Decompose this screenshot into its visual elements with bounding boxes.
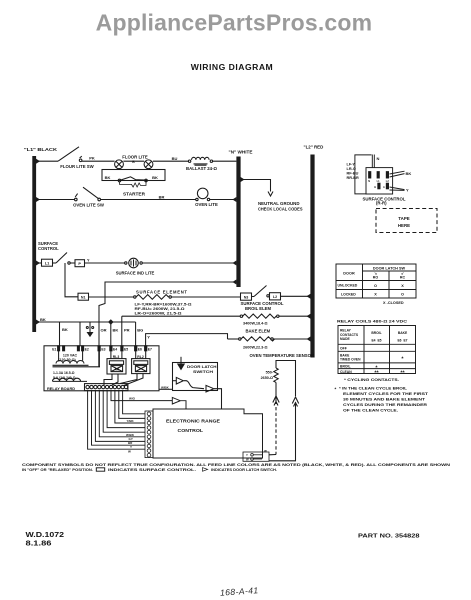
handwritten page number [220, 585, 259, 598]
svg-text:BG: BG [137, 327, 143, 332]
svg-text:RL2: RL2 [137, 355, 144, 359]
surface control detail block R-R [355, 155, 405, 195]
label N1 in box [81, 296, 86, 300]
sensor left lead [275, 382, 277, 404]
svg-text:CHECK LOCAL CODES: CHECK LOCAL CODES [258, 206, 303, 211]
pin H [378, 183, 380, 189]
svg-text:W/BK: W/BK [161, 385, 170, 389]
svg-text:RF-BU= 2600W, 21.5-Ω: RF-BU= 2600W, 21.5-Ω [135, 307, 185, 311]
label relay table header [340, 329, 359, 341]
svg-text:RL3: RL3 [113, 355, 120, 359]
wire down from switch node [65, 263, 78, 297]
svg-text:RF-BU: RF-BU [347, 172, 359, 176]
label RL2 [137, 355, 144, 359]
svg-text:B: B [132, 160, 135, 164]
label E1 [52, 348, 56, 352]
wire N1 to surface element [89, 296, 134, 298]
door latch triangle contact 3 [172, 397, 186, 409]
svg-text:W: W [264, 449, 267, 453]
svg-text:8.1.86: 8.1.86 [26, 540, 52, 547]
svg-text:(120-50 Ω): (120-50 Ω) [58, 358, 76, 362]
label Y/BK [127, 419, 135, 423]
ERC box [153, 409, 263, 458]
label NEUTRAL GROUND CHECK LOCAL CODES [258, 201, 303, 211]
svg-text:OVEN LITE SW: OVEN LITE SW [73, 203, 105, 208]
pin L1 [377, 172, 379, 178]
label BR wire [159, 194, 165, 199]
label P in box [78, 262, 81, 266]
inductor BALLAST 24 ohm [188, 157, 212, 165]
resistor BAKE ELEM [228, 337, 311, 341]
svg-text:PR: PR [124, 327, 130, 332]
svg-text:A: A [383, 186, 385, 189]
svg-text:WIRING DIAGRAM: WIRING DIAGRAM [191, 62, 273, 72]
wire L2 box to bus [281, 295, 311, 297]
svg-text:BALLAST 24-Ω: BALLAST 24-Ω [186, 166, 217, 171]
label 2600W bake [243, 346, 268, 350]
svg-text:(R-R): (R-R) [376, 201, 387, 206]
resistor sensor [274, 368, 278, 382]
label W connector [246, 449, 267, 461]
label BG drop [137, 327, 143, 332]
svg-text:O: O [374, 284, 377, 288]
label GY pin [129, 437, 133, 441]
label OVEN LITE [195, 202, 218, 207]
svg-text:OF THE CLEAN CYCLE.: OF THE CLEAN CYCLE. [343, 409, 398, 413]
label SURFACE CONTROL row3 [38, 241, 59, 251]
label E6 [138, 348, 142, 352]
wire harness 9 [119, 391, 145, 419]
svg-text:OFF: OFF [340, 346, 347, 350]
svg-text:OVEN TEMPERATURE SENSOR: OVEN TEMPERATURE SENSOR [250, 353, 315, 358]
label SURFACE CONTROL (R-R) [363, 196, 406, 205]
sensor top wire [276, 361, 296, 397]
wire row1 to ballast [153, 160, 188, 162]
svg-text:BU: BU [172, 156, 178, 161]
junction N tap [241, 177, 245, 182]
resistor SURFACE ELEMENT [134, 295, 172, 300]
wire harness 6 [107, 391, 145, 428]
svg-text:L1: L1 [377, 180, 381, 183]
label L2 in box [273, 295, 277, 299]
pin N [369, 172, 371, 178]
door latch sw table [336, 264, 416, 298]
wire E5 drop [121, 316, 123, 346]
label SURFACE CONTROL BROIL ELEM [241, 301, 284, 311]
label BALLAST 24 ohm [186, 166, 217, 171]
svg-text:TIMED OVEN: TIMED OVEN [340, 358, 361, 362]
svg-text:L1: L1 [45, 262, 49, 266]
svg-text:* IN THE CLEAN CYCLE BROIL: * IN THE CLEAN CYCLE BROIL [339, 387, 408, 391]
label X-CLOSED [383, 301, 404, 305]
lamp FLOOR LITE end 1 [115, 160, 124, 169]
wire row2 to oven lite [101, 199, 196, 201]
svg-text:E3: E3 [101, 348, 105, 352]
junction N row3 [232, 261, 236, 266]
label TAPE HERE [398, 216, 410, 228]
label surface element colors [347, 162, 359, 180]
label W/O [129, 397, 136, 401]
label BAKE ELEM [246, 329, 271, 334]
arrow right plug [292, 397, 298, 407]
svg-text:BK: BK [105, 175, 111, 180]
wire harness 4 [99, 391, 145, 437]
label SURFACE ELEMENT [136, 289, 188, 294]
wire harness relay board to ERC [88, 391, 186, 450]
label 8.1.86 [26, 540, 52, 547]
label BR pin [128, 441, 133, 445]
svg-text:E4: E4 [113, 348, 117, 352]
svg-text:BROIL: BROIL [371, 331, 381, 335]
svg-text:X: X [401, 284, 404, 288]
svg-text:FLOOR LITE: FLOOR LITE [122, 155, 148, 160]
svg-text:LOCKED: LOCKED [341, 292, 356, 296]
wire switch to P box [70, 262, 75, 264]
wire oven lite to N bus [210, 199, 237, 201]
label RL3 [113, 355, 120, 359]
leader lines Y [390, 187, 405, 190]
lamp SURFACE IND LITE [125, 258, 143, 268]
svg-text:3400W,18.4-Ω: 3400W,18.4-Ω [243, 322, 268, 326]
switch STARTER contacts [118, 177, 147, 187]
label E3 [101, 348, 105, 352]
svg-text:BK: BK [40, 317, 46, 322]
label PART NO. 354828 [358, 534, 420, 540]
svg-text:1-1.3A 16.5-Ω: 1-1.3A 16.5-Ω [53, 371, 75, 375]
svg-text:*: * [335, 387, 337, 392]
dashed sensor lead [269, 407, 276, 455]
svg-text:L2: L2 [273, 295, 277, 299]
label Y after P [87, 258, 90, 262]
svg-text:Y: Y [406, 187, 409, 192]
label BROIL row [340, 365, 378, 372]
svg-text:INDICATES DOOR LATCH SWITCH: INDICATES DOOR LATCH SWITCH. [211, 468, 277, 472]
terminal P box [75, 260, 85, 267]
svg-text:N3: N3 [244, 296, 249, 300]
svg-text:2650-Ω: 2650-Ω [261, 376, 273, 380]
door latch triangle contact 2 [206, 385, 214, 392]
pin A [386, 183, 388, 189]
svg-text:SURFACE ELEMENT: SURFACE ELEMENT [136, 289, 188, 294]
label SURFACE IND LITE [116, 270, 155, 275]
label 5V 24 240 ohm [53, 376, 76, 380]
svg-text:P: P [78, 262, 81, 266]
svg-text:BROIL: BROIL [340, 365, 351, 369]
svg-text:N: N [377, 156, 380, 161]
svg-text:Y: Y [246, 453, 248, 457]
label cycling contacts [344, 377, 399, 382]
svg-text:W: W [128, 450, 131, 454]
wire E6 drop [135, 322, 137, 346]
label OR drop [101, 327, 107, 332]
svg-text:CONTROL: CONTROL [38, 246, 59, 251]
svg-text:SWITCH: SWITCH [193, 369, 213, 374]
svg-text:120 VAC: 120 VAC [63, 353, 78, 357]
wire harness 1 [88, 391, 145, 450]
svg-text:168-A-41: 168-A-41 [220, 585, 259, 598]
svg-text:L2: L2 [386, 180, 390, 183]
connector box ERC bottom [243, 452, 269, 461]
wire BK feed bus [36, 321, 136, 323]
svg-text:BK: BK [406, 171, 412, 176]
label W-BK wire [161, 385, 170, 389]
svg-text:550-: 550- [266, 371, 274, 375]
svg-text:E6: E6 [138, 348, 142, 352]
bus L2 (red feed line) [310, 155, 314, 358]
svg-text:RR-BR: RR-BR [347, 176, 359, 180]
connector body surface control [366, 168, 393, 194]
label N3 in box [244, 296, 249, 300]
junction L2 broil [307, 314, 311, 319]
svg-text:N: N [368, 180, 370, 183]
svg-text:Y: Y [130, 445, 132, 449]
label secondary 16.5 ohm [53, 371, 75, 375]
label Y drop E7 [147, 334, 150, 339]
label BK at bus [40, 317, 46, 322]
label OVEN LITE SW [73, 203, 105, 208]
label E5 [124, 348, 128, 352]
svg-text:↘: ↘ [374, 271, 377, 275]
svg-text:CONTROL: CONTROL [178, 428, 204, 433]
label PK wire [89, 156, 95, 161]
switch surface control broil [252, 286, 270, 297]
wire N double lead [372, 155, 374, 169]
wire P to ind lite [85, 262, 125, 264]
svg-text:HERE: HERE [398, 223, 410, 228]
wire row3 from L1 bus [36, 262, 42, 264]
lamp FLOOR LITE end 2 [144, 160, 153, 169]
wire E2 drop [79, 322, 81, 346]
svg-text:INDICATES SURFACE CONTROL.: INDICATES SURFACE CONTROL. [108, 468, 196, 472]
svg-text:OR: OR [101, 327, 107, 332]
label OFF row [340, 346, 347, 350]
terminal N1 box [78, 293, 89, 300]
svg-text:5 V (24),240-Ω: 5 V (24),240-Ω [53, 376, 76, 380]
svg-text:TAPE: TAPE [398, 216, 409, 221]
label RO RC [373, 271, 406, 279]
wire E3 drop [98, 322, 100, 346]
junction L2 bake [307, 337, 311, 342]
label pin row letters [368, 180, 389, 189]
svg-text:OVEN LITE: OVEN LITE [195, 202, 218, 207]
label UNLOCKED row [338, 284, 405, 288]
svg-text:E5: E5 [124, 348, 128, 352]
svg-text:LF-Y,RR-BR=1600W,37.5-Ω: LF-Y,RR-BR=1600W,37.5-Ω [135, 303, 192, 307]
svg-text:"L1" BLACK: "L1" BLACK [24, 147, 57, 152]
terminal E7 [145, 346, 147, 351]
label BU wire [172, 156, 178, 161]
starter enclosure box [102, 169, 165, 181]
label W/BK pin [126, 433, 135, 437]
leader lines BK [390, 171, 405, 177]
ground chassis symbol [86, 322, 93, 336]
svg-text:W: W [246, 457, 249, 461]
svg-text:"N" WHITE: "N" WHITE [229, 150, 253, 155]
svg-text:E7: E7 [148, 348, 152, 352]
pin L2 [386, 172, 388, 178]
wire N return mid [99, 282, 236, 322]
wire E4 drop [110, 322, 112, 346]
wire row2 L1 to oven lite switch [36, 199, 74, 201]
node N label [229, 150, 253, 155]
svg-text:DOOR LATCH SW: DOOR LATCH SW [373, 266, 406, 270]
label BK right starter [152, 175, 158, 180]
svg-text:LF-Y: LF-Y [347, 162, 356, 166]
label E2 [85, 348, 89, 352]
label 120 VAC [63, 353, 78, 357]
relay leads [104, 351, 146, 386]
label BK drop E4 [113, 327, 119, 332]
label W.D.1072 [26, 532, 65, 539]
door latch switch assembly [159, 357, 222, 409]
svg-text:BK: BK [62, 327, 68, 332]
junction L1 row3 [36, 261, 40, 266]
wire harness 5 [103, 391, 145, 433]
label W pin [128, 450, 131, 454]
label STARTER [123, 191, 146, 196]
svg-text:AppliancePartsPros.com: AppliancePartsPros.com [96, 10, 373, 36]
terminal E4 [110, 346, 112, 351]
svg-text:RELAY BOARD: RELAY BOARD [47, 386, 75, 391]
oven temperature sensor [243, 361, 299, 462]
label ELECTRONIC RANGE CONTROL [166, 418, 220, 433]
label DOOR [343, 271, 355, 275]
junction BK bus mid [108, 319, 114, 325]
svg-text:LR-O=2600W, 21.5-Ω: LR-O=2600W, 21.5-Ω [135, 312, 182, 316]
svg-text:Y/BK: Y/BK [127, 419, 135, 423]
door latch switch box [173, 363, 218, 391]
terminal E5 [121, 346, 123, 351]
wire harness 2 [92, 391, 146, 446]
label DOOR LATCH SW header [373, 266, 406, 270]
junction N row2 [232, 197, 236, 202]
node L2 label [304, 145, 324, 150]
junction N return [232, 280, 236, 285]
label LOCKED row [341, 292, 404, 296]
svg-text:BAKE: BAKE [398, 331, 408, 335]
arrow left plug [273, 396, 279, 406]
svg-text:PK: PK [89, 156, 95, 161]
outer box surface control detail [355, 155, 372, 194]
terminal N3 box [241, 293, 252, 300]
svg-text:* CYCLING CONTACTS.: * CYCLING CONTACTS. [344, 377, 399, 382]
svg-text:2600W,22.3-Ω: 2600W,22.3-Ω [243, 346, 268, 350]
tape here dashed box [376, 209, 437, 233]
relay RL3 body [107, 359, 126, 374]
label E4 [113, 348, 117, 352]
label BK left starter [105, 175, 111, 180]
svg-text:W.D.1072: W.D.1072 [26, 532, 65, 539]
relay board box [44, 346, 159, 391]
terminal E6 [135, 346, 137, 351]
svg-text:480: 480 [114, 367, 119, 371]
svg-text:DOOR: DOOR [343, 271, 355, 275]
bus L1 (black feed line) [32, 156, 36, 332]
svg-text:PART NO. 354828: PART NO. 354828 [358, 534, 420, 540]
wire neutral ground tap [241, 180, 274, 197]
label Y [406, 187, 409, 192]
label 120-50 ohm [58, 358, 76, 362]
door latch triangle contact 1 [173, 377, 184, 384]
svg-text:X: X [374, 293, 377, 297]
label DOOR LATCH SWITCH [187, 364, 217, 374]
label RELAY BOARD [47, 386, 75, 391]
label BK [406, 171, 412, 176]
ERC pin connector [145, 411, 153, 458]
svg-text:BR: BR [159, 194, 165, 199]
svg-text:↙: ↙ [401, 271, 404, 275]
svg-text:H: H [374, 186, 376, 189]
svg-text:RC: RC [400, 276, 406, 280]
junction L1 row1 [36, 159, 40, 164]
svg-text:IN "OFF" OR "RELAXED" POSIT: IN "OFF" OR "RELAXED" POSITION. [22, 468, 93, 472]
footnote component symbols [22, 463, 450, 467]
svg-text:ELECTRONIC RANGE: ELECTRONIC RANGE [166, 418, 220, 423]
svg-text:30 MINUTES AND BAKE ELEMENT: 30 MINUTES AND BAKE ELEMENT [343, 398, 426, 402]
connector strip relay board [85, 384, 128, 391]
wire latch S-curve [184, 381, 204, 389]
label OVEN TEMPERATURE SENSOR [250, 353, 315, 358]
svg-text:LR-O: LR-O [347, 167, 356, 171]
svg-text:FLOUR LITE SW: FLOUR LITE SW [60, 164, 94, 169]
wire harness 8 [115, 391, 145, 423]
svg-text:W/O: W/O [129, 397, 136, 401]
wire harness 10 [123, 391, 145, 414]
switch surface control [53, 253, 71, 265]
wire ballast to N bus [213, 160, 237, 162]
svg-text:X -CLOSED: X -CLOSED [383, 301, 404, 305]
label FLOOR LITE [122, 155, 148, 164]
svg-text:E1: E1 [52, 348, 56, 352]
wire E7 to bake elem [146, 334, 228, 346]
relay board [44, 346, 159, 391]
bus N (white neutral line) [236, 157, 240, 288]
label sensor resistance [261, 371, 274, 380]
wire board to latch box [159, 388, 173, 390]
svg-text:RO: RO [373, 276, 379, 280]
label 480 RL3 [114, 367, 119, 371]
label clean cycle note [335, 387, 408, 392]
terminal E2 [77, 346, 83, 351]
svg-text:MADE: MADE [340, 337, 351, 341]
resistor BROIL ELEM [122, 314, 311, 318]
terminal L2 box [270, 293, 281, 300]
terminal E1 [58, 346, 65, 351]
wire latch to ERC [214, 389, 222, 409]
latch plunger arrow [178, 357, 184, 370]
sensor right lead [269, 404, 296, 461]
node L1 label [24, 147, 57, 152]
label BAKE TIMED OVEN row [340, 353, 404, 362]
svg-text:ELEMENT CYCLES FOR THE FIR: ELEMENT CYCLES FOR THE FIRST [343, 392, 429, 396]
wire ind lite to N bus [142, 262, 236, 264]
svg-text:BK: BK [152, 175, 158, 180]
wire row1 to lamp [82, 160, 115, 162]
switch OVEN LITE SW [75, 187, 101, 201]
junction L1 BK [36, 320, 40, 325]
terminal E3 [98, 346, 100, 351]
svg-text:E2: E2 [85, 348, 89, 352]
svg-text:CYCLES DURING THE REMAINDER: CYCLES DURING THE REMAINDER [343, 403, 427, 407]
svg-text:RELAY COILS 480-Ω 24 VDC: RELAY COILS 480-Ω 24 VDC [337, 318, 407, 323]
label CLEAN row [340, 370, 405, 376]
wire row1 L1 to floor lite switch [36, 160, 58, 162]
svg-text:O: O [401, 293, 404, 297]
relay coils table [337, 318, 407, 323]
label L1 in box [45, 262, 49, 266]
wire harness 3 [95, 391, 145, 442]
svg-text:E6 E7: E6 E7 [397, 338, 407, 342]
